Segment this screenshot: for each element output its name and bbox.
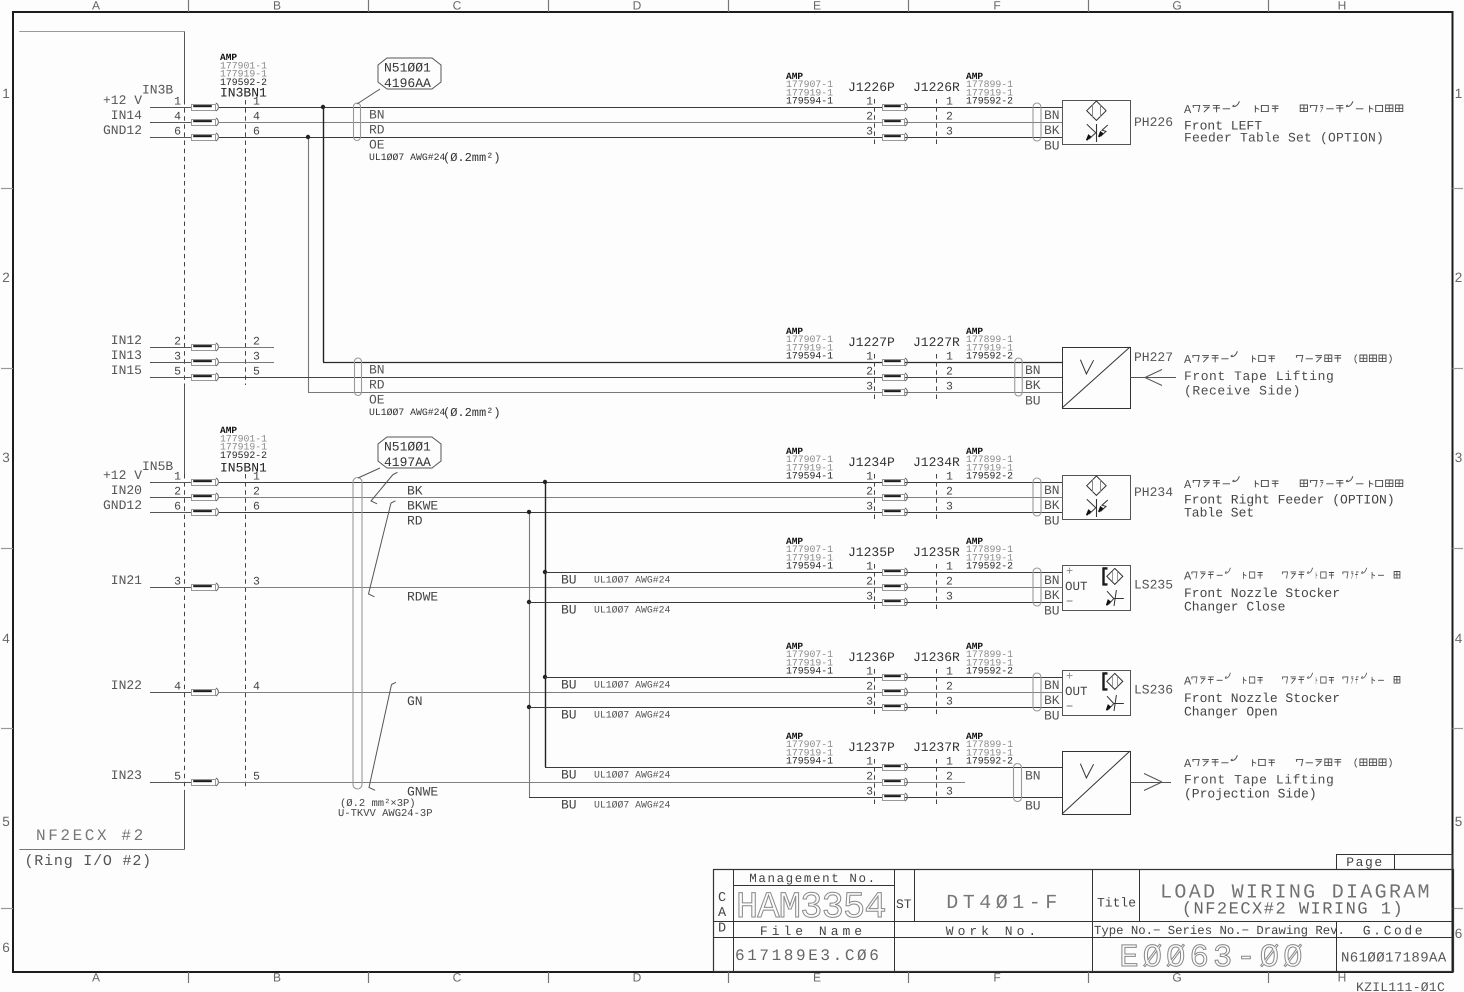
svg-text:UL1ØØ7 AWG#24: UL1ØØ7 AWG#24 xyxy=(594,680,671,691)
svg-text:C: C xyxy=(453,971,462,985)
svg-text:BN: BN xyxy=(369,363,385,378)
svg-text:A: A xyxy=(92,0,100,13)
svg-text:J1234P: J1234P xyxy=(848,455,895,470)
svg-text:179594-1: 179594-1 xyxy=(786,561,833,572)
svg-text:D: D xyxy=(633,971,642,985)
svg-text:G: G xyxy=(1172,0,1181,13)
svg-text:A: A xyxy=(718,906,727,921)
svg-text:Work No.: Work No. xyxy=(946,924,1040,939)
svg-text:3: 3 xyxy=(174,351,181,364)
svg-text:2: 2 xyxy=(946,576,953,589)
svg-text:B: B xyxy=(273,0,281,13)
svg-text:BN: BN xyxy=(1044,108,1060,123)
svg-text:2: 2 xyxy=(1455,270,1463,285)
svg-text:6: 6 xyxy=(253,126,260,139)
svg-text:H: H xyxy=(1338,971,1347,985)
svg-text:BU: BU xyxy=(561,708,577,723)
svg-text:C: C xyxy=(453,0,462,13)
svg-text:J1237P: J1237P xyxy=(848,740,895,755)
svg-text:3: 3 xyxy=(946,126,953,139)
svg-text:J1226P: J1226P xyxy=(848,80,895,95)
svg-text:U-TKVV AWG24-3P: U-TKVV AWG24-3P xyxy=(338,808,433,820)
svg-text:Type No.− Series No.− Drawing: Type No.− Series No.− Drawing Rev. xyxy=(1094,924,1345,938)
svg-text:KZIL111-Ø1C: KZIL111-Ø1C xyxy=(1356,980,1445,992)
svg-text:J1226R: J1226R xyxy=(913,80,960,95)
svg-text:2: 2 xyxy=(866,681,873,694)
svg-text:(Receive Side): (Receive Side) xyxy=(1184,384,1301,399)
svg-text:N51ØØ1: N51ØØ1 xyxy=(384,61,431,76)
svg-text:Title: Title xyxy=(1097,896,1136,911)
svg-text:BKWE: BKWE xyxy=(407,499,438,514)
svg-text:BN: BN xyxy=(1025,363,1041,378)
svg-text:UL1ØØ7 AWG#24: UL1ØØ7 AWG#24 xyxy=(369,152,446,163)
svg-text:Management No.: Management No. xyxy=(749,872,876,886)
svg-text:A: A xyxy=(1184,570,1192,584)
svg-text:−: − xyxy=(1066,595,1073,609)
svg-text:1: 1 xyxy=(253,471,260,484)
svg-text:UL1ØØ7 AWG#24: UL1ØØ7 AWG#24 xyxy=(594,605,671,616)
svg-text:IN20: IN20 xyxy=(111,483,142,498)
svg-text:(Ring I/O #2): (Ring I/O #2) xyxy=(25,853,152,870)
svg-text:3: 3 xyxy=(866,126,873,139)
svg-text:Table Set: Table Set xyxy=(1184,506,1254,521)
svg-text:N51ØØ1: N51ØØ1 xyxy=(384,440,431,455)
svg-text:3: 3 xyxy=(946,786,953,799)
svg-text:PH226: PH226 xyxy=(1134,115,1173,130)
svg-text:LS236: LS236 xyxy=(1134,683,1173,698)
svg-text:3: 3 xyxy=(1455,450,1463,465)
svg-text:D: D xyxy=(633,0,642,13)
svg-text:J1236R: J1236R xyxy=(913,650,960,665)
svg-text:(NF2ECX#2 WIRING 1): (NF2ECX#2 WIRING 1) xyxy=(1182,901,1404,920)
svg-text:+12 V: +12 V xyxy=(103,93,142,108)
svg-text:179592-2: 179592-2 xyxy=(966,96,1013,107)
svg-text:A: A xyxy=(1184,675,1192,689)
svg-text:A: A xyxy=(92,971,100,985)
svg-text:3: 3 xyxy=(866,501,873,514)
svg-text:IN3B: IN3B xyxy=(142,83,173,98)
svg-text:1: 1 xyxy=(946,756,953,769)
svg-text:Page: Page xyxy=(1346,855,1384,870)
svg-text:6: 6 xyxy=(174,126,181,139)
svg-text:3: 3 xyxy=(866,786,873,799)
svg-text:BN: BN xyxy=(369,108,385,123)
svg-text:DT4Ø1-F: DT4Ø1-F xyxy=(946,892,1062,915)
svg-text:4: 4 xyxy=(253,111,260,124)
svg-text:1: 1 xyxy=(946,561,953,574)
svg-text:4: 4 xyxy=(174,681,181,694)
svg-text:A: A xyxy=(1184,478,1192,492)
svg-text:2: 2 xyxy=(174,486,181,499)
svg-text:UL1ØØ7 AWG#24: UL1ØØ7 AWG#24 xyxy=(594,575,671,586)
svg-text:IN5B: IN5B xyxy=(142,459,173,474)
svg-text:Changer Close: Changer Close xyxy=(1184,600,1285,615)
svg-text:6: 6 xyxy=(253,501,260,514)
svg-text:EØØ63-ØØ: EØØ63-ØØ xyxy=(1119,939,1306,976)
svg-text:3: 3 xyxy=(866,696,873,709)
svg-text:BU: BU xyxy=(561,768,577,783)
svg-text:A: A xyxy=(1184,103,1192,117)
svg-text:5: 5 xyxy=(253,366,260,379)
svg-text:1: 1 xyxy=(946,666,953,679)
svg-text:UL1ØØ7 AWG#24: UL1ØØ7 AWG#24 xyxy=(594,800,671,811)
svg-text:BU: BU xyxy=(1025,394,1041,409)
svg-text:6: 6 xyxy=(1455,926,1463,941)
svg-text:3: 3 xyxy=(946,591,953,604)
svg-text:GND12: GND12 xyxy=(103,498,142,513)
svg-text:4197AA: 4197AA xyxy=(384,455,431,470)
svg-text:5: 5 xyxy=(1455,814,1463,829)
svg-text:3: 3 xyxy=(253,576,260,589)
svg-text:BU: BU xyxy=(1044,709,1060,724)
svg-text:BK: BK xyxy=(1044,498,1060,513)
svg-text:2: 2 xyxy=(866,576,873,589)
svg-text:3: 3 xyxy=(2,450,10,465)
svg-text:3: 3 xyxy=(174,576,181,589)
svg-text:IN12: IN12 xyxy=(111,333,142,348)
svg-text:E: E xyxy=(813,0,821,13)
svg-text:179594-1: 179594-1 xyxy=(786,96,833,107)
svg-text:1: 1 xyxy=(866,351,873,364)
svg-text:UL1ØØ7 AWG#24: UL1ØØ7 AWG#24 xyxy=(594,710,671,721)
svg-text:1: 1 xyxy=(2,86,10,101)
svg-text:BU: BU xyxy=(1025,799,1041,814)
svg-text:1: 1 xyxy=(866,561,873,574)
svg-text:2: 2 xyxy=(946,771,953,784)
svg-text:HAM3354: HAM3354 xyxy=(736,887,886,929)
svg-text:2: 2 xyxy=(946,366,953,379)
svg-text:UL1ØØ7 AWG#24: UL1ØØ7 AWG#24 xyxy=(594,770,671,781)
svg-text:BU: BU xyxy=(561,798,577,813)
svg-text:D: D xyxy=(718,922,726,937)
svg-text:(Ø.2mm²): (Ø.2mm²) xyxy=(443,406,501,420)
svg-text:1: 1 xyxy=(866,666,873,679)
svg-text:IN21: IN21 xyxy=(111,573,142,588)
svg-text:IN14: IN14 xyxy=(111,108,142,123)
svg-text:2: 2 xyxy=(866,111,873,124)
svg-text:G.Code: G.Code xyxy=(1363,924,1425,939)
svg-text:A: A xyxy=(1184,757,1192,771)
svg-text:BU: BU xyxy=(561,573,577,588)
svg-text:OUT: OUT xyxy=(1065,580,1088,594)
svg-text:5: 5 xyxy=(174,771,181,784)
svg-text:RDWE: RDWE xyxy=(407,590,438,605)
svg-text:3: 3 xyxy=(866,591,873,604)
svg-text:2: 2 xyxy=(174,336,181,349)
svg-text:IN22: IN22 xyxy=(111,678,142,693)
svg-text:F: F xyxy=(993,971,1000,985)
svg-text:179594-1: 179594-1 xyxy=(786,351,833,362)
svg-text:2: 2 xyxy=(866,486,873,499)
svg-text:IN23: IN23 xyxy=(111,768,142,783)
svg-text:BU: BU xyxy=(1044,139,1060,154)
svg-text:2: 2 xyxy=(946,486,953,499)
svg-text:5: 5 xyxy=(2,814,10,829)
svg-text:2: 2 xyxy=(866,366,873,379)
svg-text:File Name: File Name xyxy=(760,924,866,939)
svg-text:2: 2 xyxy=(866,771,873,784)
svg-text:BU: BU xyxy=(1044,604,1060,619)
svg-text:179592-2: 179592-2 xyxy=(966,666,1013,677)
svg-text:OE: OE xyxy=(369,393,385,408)
svg-text:4: 4 xyxy=(2,631,10,646)
svg-text:F: F xyxy=(993,0,1000,13)
svg-text:NF2ECX #2: NF2ECX #2 xyxy=(36,827,146,845)
svg-text:179592-2: 179592-2 xyxy=(966,561,1013,572)
svg-text:(Ø.2mm²): (Ø.2mm²) xyxy=(443,151,501,165)
svg-text:179592-2: 179592-2 xyxy=(966,351,1013,362)
svg-text:1: 1 xyxy=(1455,86,1463,101)
svg-text:3: 3 xyxy=(253,351,260,364)
svg-text:RD: RD xyxy=(369,378,385,393)
svg-text:2: 2 xyxy=(253,486,260,499)
svg-text:BN: BN xyxy=(1044,483,1060,498)
svg-text:BN: BN xyxy=(1044,678,1060,693)
svg-text:1: 1 xyxy=(253,96,260,109)
svg-text:5: 5 xyxy=(253,771,260,784)
svg-text:J1235P: J1235P xyxy=(848,545,895,560)
svg-text:1: 1 xyxy=(866,96,873,109)
svg-text:179592-2: 179592-2 xyxy=(966,756,1013,767)
svg-text:3: 3 xyxy=(946,381,953,394)
svg-text:179594-1: 179594-1 xyxy=(786,666,833,677)
svg-text:4196AA: 4196AA xyxy=(384,76,431,91)
svg-text:BU: BU xyxy=(561,678,577,693)
svg-text:BN: BN xyxy=(1044,573,1060,588)
svg-text:(Projection Side): (Projection Side) xyxy=(1184,787,1317,802)
svg-text:GND12: GND12 xyxy=(103,123,142,138)
svg-text:179594-1: 179594-1 xyxy=(786,471,833,482)
svg-text:BK: BK xyxy=(1044,123,1060,138)
svg-text:BK: BK xyxy=(1044,693,1060,708)
svg-text:179592-2: 179592-2 xyxy=(220,450,267,461)
svg-text:BK: BK xyxy=(407,484,423,499)
svg-text:BK: BK xyxy=(1044,588,1060,603)
svg-text:J1237R: J1237R xyxy=(913,740,960,755)
svg-text:+: + xyxy=(1066,670,1073,684)
svg-text:2: 2 xyxy=(946,681,953,694)
svg-text:BN: BN xyxy=(1025,769,1041,784)
svg-text:6: 6 xyxy=(174,501,181,514)
svg-text:ST: ST xyxy=(896,897,912,912)
svg-text:3: 3 xyxy=(946,501,953,514)
svg-text:BU: BU xyxy=(1044,514,1060,529)
svg-text:2: 2 xyxy=(253,336,260,349)
svg-text:J1235R: J1235R xyxy=(913,545,960,560)
svg-text:J1227P: J1227P xyxy=(848,335,895,350)
svg-text:1: 1 xyxy=(946,471,953,484)
svg-text:3: 3 xyxy=(866,381,873,394)
svg-text:IN13: IN13 xyxy=(111,348,142,363)
svg-text:BK: BK xyxy=(1025,378,1041,393)
svg-text:PH227: PH227 xyxy=(1134,350,1173,365)
svg-text:6: 6 xyxy=(2,940,10,955)
svg-text:−: − xyxy=(1066,700,1073,714)
svg-text:IN3BN1: IN3BN1 xyxy=(220,86,267,101)
svg-text:+12 V: +12 V xyxy=(103,468,142,483)
svg-text:Front Tape Lifting: Front Tape Lifting xyxy=(1184,773,1334,788)
svg-text:LS235: LS235 xyxy=(1134,578,1173,593)
svg-text:RD: RD xyxy=(407,514,423,529)
svg-text:1: 1 xyxy=(946,351,953,364)
svg-text:OUT: OUT xyxy=(1065,685,1088,699)
svg-text:2: 2 xyxy=(946,111,953,124)
svg-text:4: 4 xyxy=(1455,631,1463,646)
svg-text:A: A xyxy=(1184,353,1192,367)
svg-text:Changer Open: Changer Open xyxy=(1184,705,1278,720)
svg-text:1: 1 xyxy=(174,96,181,109)
svg-text:5: 5 xyxy=(174,366,181,379)
svg-text:C: C xyxy=(718,891,726,906)
svg-text:IN15: IN15 xyxy=(111,363,142,378)
svg-text:1: 1 xyxy=(866,471,873,484)
svg-text:GN: GN xyxy=(407,694,423,709)
svg-text:1: 1 xyxy=(174,471,181,484)
svg-text:2: 2 xyxy=(2,270,10,285)
svg-text:H: H xyxy=(1338,0,1347,13)
svg-text:J1236P: J1236P xyxy=(848,650,895,665)
svg-text:OE: OE xyxy=(369,138,385,153)
svg-text:179594-1: 179594-1 xyxy=(786,756,833,767)
svg-text:4: 4 xyxy=(174,111,181,124)
svg-text:Feeder Table Set (OPTION): Feeder Table Set (OPTION) xyxy=(1184,131,1384,146)
svg-text:617189E3.CØ6: 617189E3.CØ6 xyxy=(735,947,881,965)
svg-text:+: + xyxy=(1066,565,1073,579)
svg-text:B: B xyxy=(273,971,281,985)
svg-text:J1227R: J1227R xyxy=(913,335,960,350)
svg-text:3: 3 xyxy=(946,696,953,709)
svg-text:BU: BU xyxy=(561,603,577,618)
svg-text:179592-2: 179592-2 xyxy=(966,471,1013,482)
svg-text:Front Tape Lifting: Front Tape Lifting xyxy=(1184,369,1334,384)
svg-text:1: 1 xyxy=(866,756,873,769)
svg-text:IN5BN1: IN5BN1 xyxy=(220,461,267,476)
svg-text:E: E xyxy=(813,971,821,985)
svg-text:1: 1 xyxy=(946,96,953,109)
svg-text:PH234: PH234 xyxy=(1134,485,1173,500)
svg-text:RD: RD xyxy=(369,123,385,138)
svg-text:UL1ØØ7 AWG#24: UL1ØØ7 AWG#24 xyxy=(369,407,446,418)
svg-text:J1234R: J1234R xyxy=(913,455,960,470)
svg-text:4: 4 xyxy=(253,681,260,694)
svg-text:N61ØØ17189AA: N61ØØ17189AA xyxy=(1341,951,1447,967)
